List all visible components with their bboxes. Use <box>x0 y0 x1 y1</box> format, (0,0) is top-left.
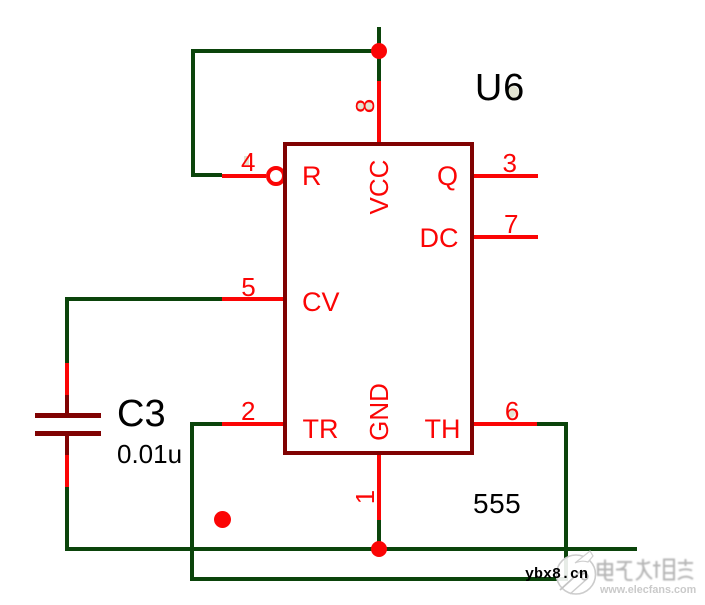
pin number 5 <box>241 274 255 300</box>
wire top-left vertical <box>191 49 195 177</box>
floating red dot <box>214 511 231 528</box>
capacitor C3 bottom plate <box>35 431 101 436</box>
junction dot top VCC <box>371 43 387 59</box>
pin 3 red stub <box>473 174 538 178</box>
pin name Q <box>437 163 458 190</box>
pin name VCC rotated <box>366 160 392 215</box>
pin number 8 rotated <box>352 99 378 113</box>
label 555 <box>473 490 521 518</box>
wire TH vertical <box>564 422 568 581</box>
pin number 6 <box>505 398 519 424</box>
wire TR green horizontal <box>190 422 222 426</box>
pin number 4 <box>241 149 255 175</box>
pin 6 red stub <box>473 422 537 426</box>
pin name R <box>302 163 322 190</box>
watermark chinese text 电子发烧友 <box>598 559 693 580</box>
capacitor C3 bottom maroon stub <box>65 436 69 455</box>
wire TR vertical <box>190 422 194 581</box>
pin number 1 rotated <box>352 490 378 504</box>
wire ground bus line1 <box>65 547 637 551</box>
watermark logo disc <box>548 548 705 605</box>
wire TH green horizontal <box>537 422 568 426</box>
pin name GND rotated <box>366 383 392 441</box>
capacitor C3 top plate <box>35 413 101 418</box>
label ybx8.cn <box>525 567 588 582</box>
beige counter of U6 '6' <box>506 86 519 99</box>
pin number 3 <box>503 150 517 176</box>
pin 5 red stub <box>222 297 285 301</box>
capacitor C3 top red lead <box>65 363 69 395</box>
pin name TR <box>303 416 339 443</box>
capacitor C3 bottom red lead <box>65 455 69 487</box>
beige counter of pin number 6 <box>506 409 515 418</box>
pin 1 GND red stub <box>377 455 381 520</box>
pin 7 red stub <box>473 235 538 239</box>
pin number 7 <box>504 211 518 237</box>
wire left vertical to capacitor <box>65 297 69 363</box>
wire bottom line2 TR-TH <box>190 577 568 581</box>
IC U6 555 body <box>283 142 474 455</box>
label C3 <box>117 395 166 433</box>
pin 2 red stub <box>222 422 285 426</box>
wire pin4 green horizontal <box>191 173 222 177</box>
capacitor C3 top maroon stub <box>65 395 69 414</box>
pin name DC <box>420 225 459 252</box>
pin 4 red stub <box>222 174 266 178</box>
pin 4 inversion bubble <box>266 166 286 186</box>
wire pin8 vertical green stub above IC <box>377 27 381 81</box>
pin name CV <box>302 289 340 316</box>
pin number 2 <box>241 398 255 424</box>
wire top horizontal VCC net <box>191 49 379 53</box>
wire pin1 green vertical <box>377 520 381 551</box>
svg-text:www.elecfans.com: www.elecfans.com <box>599 584 696 596</box>
pin name TH <box>425 416 461 443</box>
junction dot ground <box>371 541 387 557</box>
wire CV green horizontal <box>65 297 222 301</box>
pin 8 red stub <box>377 81 381 144</box>
beige counter of pin number 4 <box>244 156 249 165</box>
beige counter of pin number 8 (rotated) <box>356 102 364 110</box>
label U6 <box>475 69 525 107</box>
wire capacitor bottom green vertical <box>65 487 69 551</box>
value 0.01u <box>117 441 182 467</box>
